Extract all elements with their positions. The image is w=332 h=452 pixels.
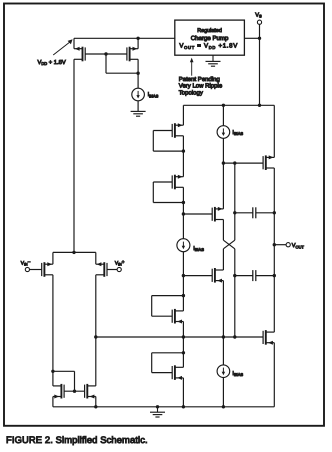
terminal VS: [255, 12, 262, 105]
wire Q6 drain to I3: [182, 187, 184, 239]
transistor Q13 PMOS cascode: [263, 155, 274, 170]
ground U1: [206, 55, 221, 66]
svg-text:FIGURE 2. Simplified Schematic: FIGURE 2. Simplified Schematic.: [6, 434, 148, 445]
wire Q9 gate loop: [152, 296, 184, 317]
node mirror gates: [73, 390, 76, 393]
terminal VIN+: [107, 260, 125, 271]
wire U1 output to VS: [244, 37, 259, 39]
transistor Q7 PMOS driver: [212, 207, 223, 222]
annotation text patent pending: [179, 76, 223, 96]
wire B down: [234, 163, 236, 240]
wire I4 to ground rail: [222, 378, 224, 407]
node rail VS: [258, 104, 261, 107]
wire bias node to Q13 gate: [223, 162, 262, 164]
node Q5 drain: [182, 149, 185, 152]
svg-text:Very Low Ripple: Very Low Ripple: [179, 83, 223, 90]
wire gate node down: [106, 54, 138, 73]
node gnd sym: [156, 405, 159, 408]
wire X to node337: [234, 249, 236, 337]
node C1 left: [233, 211, 236, 214]
wire I2 bottom: [222, 138, 224, 163]
node C2 right: [273, 274, 276, 277]
charge pump U1 label: [179, 28, 238, 50]
svg-text:VIN−: VIN−: [21, 260, 31, 266]
wire mirror diode loop: [53, 371, 75, 391]
node Q7 gate tap: [182, 212, 185, 215]
charge pump U1 box: [175, 20, 245, 55]
svg-text:VS: VS: [255, 12, 262, 18]
svg-text:IBIAS: IBIAS: [232, 371, 243, 377]
annotation arrow patent: [190, 58, 194, 76]
node C2 left: [233, 274, 236, 277]
node bias A: [222, 161, 225, 164]
annotation VDD + 1.8V: [38, 39, 73, 66]
wire tail: [53, 251, 96, 253]
wire ground rail: [53, 406, 274, 408]
wire Q8 source down: [222, 281, 224, 365]
ground main: [150, 407, 165, 417]
svg-text:Charge Pump: Charge Pump: [191, 35, 229, 42]
svg-text:Patent Pending: Patent Pending: [179, 76, 220, 83]
wire Q11 source: [52, 397, 54, 407]
wire Q12 drain: [95, 337, 97, 386]
node rail I2: [222, 104, 225, 107]
node337 x223: [222, 335, 225, 338]
wire I3 to Q9: [182, 252, 184, 311]
svg-text:VIN+: VIN+: [115, 260, 125, 266]
wire crossing X: [223, 240, 234, 249]
transistor Q9 NMOS diode: [172, 309, 183, 324]
current source I1 IBIAS: [132, 88, 159, 101]
wire Q7 drain to X: [222, 220, 224, 241]
node rail junction Q2 source: [136, 37, 139, 40]
transistor Q2 PMOS: [127, 47, 138, 62]
terminal VIN-: [21, 260, 42, 271]
svg-text:VOUT = VDD +1.8V: VOUT = VDD +1.8V: [179, 43, 238, 50]
wire I1 to ground: [137, 101, 139, 112]
capacitor C2: [235, 270, 274, 281]
node gate Q1Q2: [104, 52, 107, 55]
wire node337: [96, 336, 263, 338]
svg-text:Regulated: Regulated: [197, 28, 222, 34]
node C1 right: [273, 211, 276, 214]
node Q10 gate loop: [182, 351, 185, 354]
wire Q1 source: [73, 38, 75, 48]
svg-text:IBIAS: IBIAS: [193, 246, 204, 252]
node337 x234: [233, 335, 236, 338]
wire Q11 drain: [52, 371, 54, 386]
wire Q10 gate loop: [152, 353, 184, 373]
svg-text:VDD + 1.8V: VDD + 1.8V: [38, 59, 66, 66]
wire Q1 drain to tail: [73, 59, 75, 252]
node tail: [72, 251, 75, 254]
transistor Q1 PMOS: [74, 47, 85, 62]
terminal VOUT: [274, 243, 304, 250]
wire rail to I2: [222, 105, 224, 125]
transistor Q3 PMOS input-: [42, 262, 53, 277]
node Q2 drain-gate: [136, 72, 139, 75]
wire Q2 drain: [137, 59, 139, 88]
transistor Q8 NMOS driver: [212, 268, 223, 283]
transistor Q12 NMOS mirror: [85, 384, 96, 399]
transistor Q4 PMOS input+: [96, 262, 107, 277]
node VOUT: [273, 243, 276, 246]
wire rail to Q5: [182, 105, 184, 125]
svg-text:IBIAS: IBIAS: [232, 130, 243, 136]
wire Q12 source: [95, 397, 97, 407]
transistor Q6 PMOS diode: [172, 175, 183, 190]
wire Q2 source: [137, 38, 139, 48]
node gnd Q12: [94, 405, 97, 408]
wire Q5 drain to Q6: [182, 136, 184, 177]
current source I3 IBIAS: [177, 239, 204, 252]
capacitor C1: [235, 207, 274, 218]
wire Q7 gate: [183, 213, 212, 215]
wire Q4 drain: [95, 275, 97, 337]
transistor Q10 NMOS diode: [172, 365, 183, 380]
ground I1: [131, 111, 146, 116]
transistor Q5 PMOS diode: [172, 123, 183, 138]
wire mirror gates: [64, 390, 85, 392]
wire Q8 gate: [183, 275, 212, 277]
current source I2 IBIAS: [217, 126, 243, 139]
wire Q6 gate loop: [153, 182, 183, 203]
svg-text:IBIAS: IBIAS: [148, 92, 159, 98]
node Q6 drain: [182, 201, 185, 204]
wire rail corner to Q13: [273, 105, 275, 157]
svg-text:VOUT: VOUT: [292, 243, 305, 249]
node gnd I4: [222, 405, 225, 408]
wire Q10 source: [182, 378, 184, 407]
node bias B: [233, 161, 236, 164]
node337 Q4 drain: [94, 335, 97, 338]
caption: [6, 434, 148, 445]
node Q3 drain mirror: [51, 370, 54, 373]
node mid rail y337: [182, 335, 185, 338]
node VS junction: [258, 37, 261, 40]
node gnd Q10: [182, 405, 185, 408]
wire boosted rail: [183, 104, 274, 106]
wire Q4 source: [95, 252, 97, 264]
wire Q3 drain: [52, 275, 54, 372]
svg-text:Topology: Topology: [179, 89, 203, 96]
wire X to Q8: [222, 249, 224, 270]
wire Q1-Q2 gates: [85, 53, 127, 55]
node Q8 gate tap: [182, 274, 185, 277]
wire Q13 drain output rail: [273, 168, 275, 332]
wire Q5 gate loop: [153, 131, 183, 152]
wire VDD top rail: [74, 37, 175, 39]
transistor Q11 NMOS mirror diode: [53, 384, 64, 399]
transistor Q14 NMOS output: [263, 330, 274, 345]
wire Q14 source: [273, 343, 275, 407]
current source I4 IBIAS: [217, 365, 243, 378]
node Q9 gate loop top: [182, 294, 185, 297]
wire Q9 source down: [182, 322, 184, 368]
wire A down to Q7: [222, 163, 224, 209]
wire Q3 source: [52, 252, 54, 264]
